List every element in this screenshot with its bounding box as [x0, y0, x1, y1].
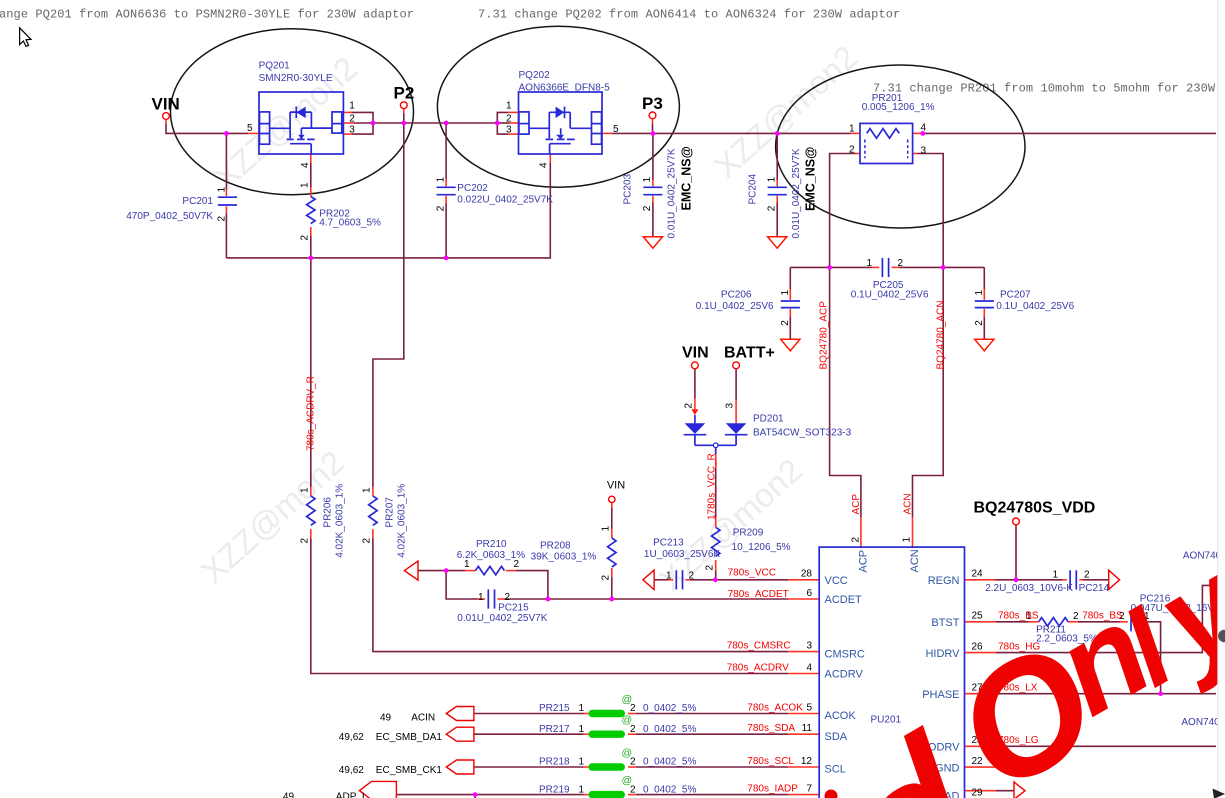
svg-text:780s_ACDET: 780s_ACDET	[728, 589, 789, 600]
note change PQ201	[0, 7, 414, 21]
svg-text:1: 1	[478, 592, 484, 603]
wire VIN small through PR208	[611, 503, 613, 599]
svg-text:ACIN: ACIN	[411, 713, 435, 724]
port P3	[642, 94, 663, 119]
wire SCL row net 780s_SCL	[474, 766, 819, 768]
svg-text:ADP_I: ADP_I	[336, 791, 365, 798]
svg-text:2: 2	[849, 145, 855, 156]
svg-text:PC213: PC213	[653, 538, 684, 549]
svg-text:AON6366E_DFN8-5: AON6366E_DFN8-5	[519, 83, 611, 94]
svg-text:PC215: PC215	[498, 603, 529, 614]
svg-text:3: 3	[506, 124, 512, 135]
resistor PR207	[361, 484, 407, 558]
resistor PR219	[539, 775, 696, 798]
svg-text:2: 2	[898, 258, 904, 269]
svg-text:PQ201: PQ201	[259, 60, 291, 71]
svg-text:ange PQ201 from AON6636 to PSM: ange PQ201 from AON6636 to PSMN2R0-30YLE…	[0, 7, 414, 21]
connector arrow ADP_I	[283, 781, 397, 798]
off-page arrow at PAD	[1014, 782, 1025, 798]
svg-text:EMC_NS@: EMC_NS@	[680, 146, 694, 210]
wire net P2 to PC202 branch	[445, 123, 447, 258]
wire SDA row net 780s_SDA	[474, 733, 819, 735]
watermark xzz@mon2 #1	[207, 49, 364, 196]
svg-text:4.7_0603_5%: 4.7_0603_5%	[319, 217, 381, 228]
wire net P3 bus	[602, 119, 860, 134]
off-page arrow at GND	[1016, 758, 1027, 776]
svg-text:1: 1	[766, 176, 777, 182]
svg-text:BQ24780S_VDD: BQ24780S_VDD	[974, 500, 1096, 517]
wire net VIN to PQ201 pin5	[166, 119, 260, 133]
svg-text:PR210: PR210	[476, 539, 507, 550]
svg-text:ACDRV: ACDRV	[825, 669, 864, 681]
svg-text:2: 2	[600, 575, 611, 581]
svg-text:1: 1	[902, 537, 913, 543]
wire net 780s_ACDET row	[446, 571, 819, 599]
svg-text:P3: P3	[642, 94, 663, 113]
svg-text:0.1U_0402_25V6: 0.1U_0402_25V6	[696, 301, 774, 312]
wire GND pin row	[965, 766, 1017, 768]
capacitor PC201	[126, 186, 237, 221]
svg-text:780s_CMSRC: 780s_CMSRC	[727, 641, 791, 652]
svg-text:29: 29	[972, 787, 984, 798]
svg-text:SDA: SDA	[825, 731, 848, 743]
svg-text:2: 2	[349, 113, 355, 124]
wire PHASE row net 780s_LX	[965, 693, 1217, 695]
svg-text:VIN: VIN	[152, 95, 180, 114]
svg-text:ACOK: ACOK	[825, 710, 857, 722]
svg-text:BTST: BTST	[931, 617, 959, 629]
svg-text:1: 1	[974, 290, 985, 296]
svg-text:2: 2	[684, 403, 695, 409]
connector arrow EC_SMB_CK1	[339, 760, 474, 776]
label AON7408 bottom	[1181, 717, 1225, 728]
svg-text:PR207: PR207	[385, 497, 396, 528]
svg-text:PC201: PC201	[182, 196, 213, 207]
wire PQ201 pin4 to PR202	[310, 155, 312, 258]
svg-text:7.31 change PR201 from 10mohm: 7.31 change PR201 from 10mohm to 5mohm f…	[873, 81, 1216, 95]
svg-text:1: 1	[349, 101, 355, 112]
svg-text:470P_0402_50V7K: 470P_0402_50V7K	[126, 211, 213, 222]
wire PR201 pin4 to right edge	[913, 132, 1216, 134]
svg-text:5: 5	[806, 702, 812, 713]
svg-text:ACN: ACN	[909, 549, 921, 572]
svg-text:ACP: ACP	[851, 494, 862, 515]
connector arrow ACIN	[380, 707, 474, 724]
wire PC206 branch to ground	[789, 267, 791, 339]
svg-text:2: 2	[1084, 570, 1090, 581]
label net 780s_ACDRV_R	[306, 376, 317, 451]
svg-text:CMSRC: CMSRC	[825, 648, 865, 660]
svg-text:PR218: PR218	[539, 757, 570, 768]
svg-text:1: 1	[464, 559, 470, 570]
svg-text:12: 12	[801, 756, 813, 767]
resistor PR201 (sense)	[849, 93, 935, 163]
svg-text:2: 2	[689, 570, 695, 581]
svg-text:49: 49	[380, 713, 392, 724]
svg-text:25: 25	[972, 611, 984, 622]
wire net BQ24780S_VDD	[1015, 525, 1017, 580]
note change PQ202	[478, 7, 900, 21]
mouse cursor	[20, 28, 31, 47]
svg-text:2: 2	[642, 205, 653, 211]
watermark Internal Only (red)	[838, 527, 1225, 798]
resistor PR206	[299, 484, 345, 558]
svg-text:1: 1	[866, 258, 872, 269]
svg-text:4.02K_0603_1%: 4.02K_0603_1%	[397, 484, 408, 558]
svg-text:ACDET: ACDET	[825, 594, 863, 606]
svg-text:EMC_NS@: EMC_NS@	[804, 147, 818, 211]
svg-text:1: 1	[217, 186, 228, 192]
svg-text:PR217: PR217	[539, 724, 570, 735]
svg-text:1: 1	[579, 703, 585, 714]
svg-text:PC203: PC203	[623, 173, 634, 204]
wire net BQ24780_ACN	[913, 154, 944, 549]
wire net 780s_VCC_R through PR209	[715, 454, 717, 580]
svg-text:1: 1	[666, 570, 672, 581]
svg-text:1: 1	[579, 784, 585, 795]
svg-text:2: 2	[217, 216, 228, 222]
svg-text:2: 2	[851, 537, 862, 543]
svg-text:PC206: PC206	[721, 289, 752, 300]
svg-text:2: 2	[436, 205, 447, 211]
svg-text:EC_SMB_DA1: EC_SMB_DA1	[376, 732, 443, 743]
diode PD201 dual	[684, 369, 852, 454]
svg-text:BATT+: BATT+	[724, 345, 775, 362]
label EMC_NS@ at PC204	[804, 147, 818, 211]
ellipse around PR201	[776, 65, 1025, 228]
capacitor PC214	[985, 570, 1109, 594]
svg-text:PC204: PC204	[748, 173, 759, 204]
svg-text:49,62: 49,62	[339, 765, 364, 776]
ellipse around PQ202	[437, 26, 679, 187]
svg-text:PC207: PC207	[1000, 289, 1031, 300]
svg-text:780s_IADP: 780s_IADP	[747, 784, 798, 795]
svg-text:1: 1	[579, 724, 585, 735]
port BATT+	[724, 345, 775, 369]
svg-text:VCC: VCC	[825, 575, 848, 587]
svg-text:1: 1	[642, 176, 653, 182]
svg-text:PR215: PR215	[539, 703, 570, 714]
svg-text:4: 4	[806, 662, 812, 673]
wire ACOK row net 780s_ACOK	[474, 713, 819, 715]
svg-text:0.1U_0402_25V6: 0.1U_0402_25V6	[996, 301, 1074, 312]
op-amp chip PU201 BQ24780S	[819, 547, 964, 798]
svg-text:4: 4	[921, 123, 927, 134]
capacitor PC206	[696, 289, 800, 325]
note change PR201	[873, 81, 1216, 95]
svg-text:2: 2	[704, 565, 715, 571]
labels red pin nets ACP ACN	[851, 494, 862, 515]
svg-text:1: 1	[361, 487, 372, 493]
svg-text:2: 2	[299, 538, 310, 544]
resistor PR209	[704, 527, 790, 570]
svg-text:4.02K_0603_1%: 4.02K_0603_1%	[335, 484, 346, 558]
label net 1 780s_VCC_R	[707, 453, 718, 520]
svg-text:0_0402_5%: 0_0402_5%	[643, 724, 696, 735]
svg-text:1780s_VCC_R: 1780s_VCC_R	[707, 453, 718, 520]
svg-text:4: 4	[539, 162, 550, 168]
port VIN small at PR208	[607, 479, 625, 502]
svg-text:2: 2	[780, 320, 791, 326]
svg-text:PR208: PR208	[540, 541, 571, 552]
label EMC_NS@ at PC203	[680, 146, 694, 210]
svg-text:PQ202: PQ202	[519, 70, 551, 81]
svg-text:0.01U_0402_25V7K: 0.01U_0402_25V7K	[667, 148, 678, 238]
port P2	[394, 84, 415, 109]
svg-text:VIN: VIN	[607, 479, 625, 491]
net labels left of chip	[727, 568, 804, 795]
svg-text:0_0402_5%: 0_0402_5%	[643, 757, 696, 768]
watermark xzz@mon2 #3	[194, 443, 351, 590]
svg-text:PC202: PC202	[457, 183, 488, 194]
net labels right of chip	[998, 611, 1123, 746]
wire BTST row net 780s_BS	[965, 622, 1161, 694]
wire net 780s_VCC row	[654, 579, 819, 581]
svg-text:0.1U_0402_25V6: 0.1U_0402_25V6	[851, 289, 929, 300]
svg-text:5: 5	[247, 123, 253, 134]
scrollbar strip	[1213, 0, 1225, 798]
capacitor PC205	[851, 258, 929, 301]
capacitor PC215	[457, 589, 547, 624]
capacitor PC216	[1119, 594, 1225, 632]
ground at PC203	[643, 237, 662, 249]
red ERC dot at pin7	[825, 790, 838, 798]
svg-text:3: 3	[806, 640, 812, 651]
svg-text:1: 1	[849, 123, 855, 134]
wire PC205 row	[790, 266, 984, 268]
label net BQ24780_ACP	[819, 301, 830, 370]
svg-text:780s_ACDRV: 780s_ACDRV	[727, 662, 789, 673]
svg-text:PR219: PR219	[539, 784, 570, 795]
wire HIDRV row net 780s_HG	[965, 585, 1217, 652]
svg-text:7: 7	[806, 783, 812, 794]
svg-text:@: @	[622, 747, 633, 759]
svg-text:39K_0603_1%: 39K_0603_1%	[531, 551, 597, 562]
svg-text:ACN: ACN	[903, 493, 914, 514]
wire IADP row net 780s_IADP	[396, 795, 819, 798]
resistor PR217	[539, 714, 696, 738]
wire PC201 branch	[225, 133, 227, 258]
wire net P2 bus	[373, 109, 497, 123]
svg-text:@: @	[622, 775, 633, 787]
capacitor PC203	[623, 148, 678, 238]
ground at PC207	[975, 339, 994, 351]
svg-text:PD201: PD201	[753, 414, 784, 425]
wire PC204 branch to ground	[776, 133, 778, 236]
svg-text:0.005_1206_1%: 0.005_1206_1%	[862, 102, 935, 113]
svg-text:6: 6	[806, 588, 812, 599]
svg-text:@: @	[622, 694, 633, 706]
off-page arrow at REGN	[1109, 570, 1120, 589]
capacitor PC207	[974, 289, 1075, 325]
port BQ24780S_VDD	[974, 500, 1096, 525]
svg-text:2: 2	[766, 205, 777, 211]
svg-text:BQ24780_ACP: BQ24780_ACP	[819, 301, 830, 370]
svg-text:0.022U_0402_25V7K: 0.022U_0402_25V7K	[457, 195, 553, 206]
svg-text:780s_VCC: 780s_VCC	[728, 568, 776, 579]
resistor PR202	[299, 182, 381, 241]
svg-text:1: 1	[1052, 570, 1058, 581]
svg-text:49: 49	[283, 791, 295, 798]
resistor PR211	[1026, 611, 1098, 645]
capacitor PC204	[748, 148, 802, 238]
svg-text:ACP: ACP	[858, 550, 870, 573]
capacitor PC213	[644, 538, 721, 590]
svg-text:2: 2	[299, 235, 310, 241]
svg-text:0_0402_5%: 0_0402_5%	[643, 784, 696, 795]
wire REGN row	[965, 579, 1109, 581]
connector arrow EC_SMB_DA1	[339, 727, 474, 743]
svg-text:@: @	[622, 714, 633, 726]
resistor PR208	[531, 526, 616, 581]
svg-text:0_0402_5%: 0_0402_5%	[643, 703, 696, 714]
label net BQ24780_ACN	[936, 301, 947, 370]
svg-text:0.01U_0402_25V7K: 0.01U_0402_25V7K	[457, 613, 547, 624]
svg-text:780s_ACOK: 780s_ACOK	[747, 702, 803, 713]
svg-text:2: 2	[506, 113, 512, 124]
svg-text:780s_SDA: 780s_SDA	[747, 723, 795, 734]
ground at PC206	[781, 339, 800, 351]
svg-text:VIN: VIN	[682, 345, 709, 362]
svg-text:1: 1	[436, 176, 447, 182]
ground at PC204	[768, 237, 787, 249]
ellipse around PQ201	[171, 29, 414, 195]
watermark xzz@mon2 #4	[652, 451, 809, 598]
port VIN	[152, 95, 180, 120]
svg-text:2: 2	[361, 538, 372, 544]
wire net 780s_ACDRV_R through PR206	[311, 258, 819, 674]
wire LODRV row net 780s_LG	[965, 745, 1217, 747]
svg-text:10_1206_5%: 10_1206_5%	[732, 542, 791, 553]
port VIN at PD201	[682, 345, 709, 369]
transistor PQ201	[247, 60, 355, 168]
svg-text:2: 2	[974, 320, 985, 326]
svg-text:3: 3	[725, 403, 736, 409]
svg-text:780s_SCL: 780s_SCL	[747, 756, 794, 767]
svg-text:1: 1	[506, 101, 512, 112]
svg-text:1: 1	[780, 290, 791, 296]
svg-text:5: 5	[613, 124, 619, 135]
svg-text:780s_ACDRV_R: 780s_ACDRV_R	[306, 376, 317, 451]
capacitor PC202	[436, 176, 554, 211]
svg-text:BAT54CW_SOT323-3: BAT54CW_SOT323-3	[753, 428, 852, 439]
svg-text:4: 4	[300, 162, 311, 168]
svg-text:2.2U_0603_10V6-K: 2.2U_0603_10V6-K	[985, 583, 1073, 594]
svg-text:REGN: REGN	[928, 575, 960, 587]
watermark xzz@mon2 #2	[707, 38, 864, 185]
wire PAD pin row	[965, 790, 1015, 792]
svg-text:11: 11	[802, 723, 813, 734]
svg-text:PR209: PR209	[733, 528, 764, 539]
wire net P2 down through PR207 to CMSRC	[373, 123, 819, 652]
svg-text:1: 1	[579, 757, 585, 768]
svg-text:PR206: PR206	[323, 497, 334, 528]
svg-text:2: 2	[514, 559, 520, 570]
svg-text:24: 24	[972, 569, 984, 580]
wire bottom rail net P5	[226, 155, 550, 258]
svg-text:0.01U_0402_25V7K: 0.01U_0402_25V7K	[791, 148, 802, 238]
svg-text:1U_0603_25V6K: 1U_0603_25V6K	[644, 549, 721, 560]
wire PQ202 left pins bracket	[497, 112, 519, 134]
wire PR210 row	[418, 571, 548, 599]
svg-text:1: 1	[600, 526, 611, 532]
svg-text:3: 3	[921, 145, 927, 156]
svg-text:28: 28	[801, 569, 813, 580]
resistor PR215	[539, 694, 696, 718]
off-page arrow at PR210	[404, 561, 418, 580]
wire net BQ24780_ACP	[830, 154, 861, 549]
svg-text:49,62: 49,62	[339, 732, 364, 743]
label AON7408 top	[1183, 550, 1225, 561]
svg-text:3: 3	[349, 124, 355, 135]
svg-text:2: 2	[505, 592, 511, 603]
svg-text:SMN2R0-30YLE: SMN2R0-30YLE	[259, 73, 333, 84]
resistor PR218	[539, 747, 696, 771]
resistor PR210	[457, 539, 526, 575]
svg-text:1: 1	[299, 487, 310, 493]
svg-text:EC_SMB_CK1: EC_SMB_CK1	[376, 765, 443, 776]
transistor PQ202	[506, 70, 619, 168]
off-page arrow at PC213	[643, 570, 654, 590]
svg-text:7.31 change PQ202 from AON6414: 7.31 change PQ202 from AON6414 to AON632…	[478, 7, 900, 21]
svg-text:1: 1	[299, 182, 310, 188]
svg-text:P2: P2	[394, 84, 415, 103]
wire PC203 branch to ground	[652, 133, 654, 236]
wire PC207 branch to ground	[983, 267, 985, 339]
wire PQ201 right pins bracket	[343, 112, 373, 134]
svg-text:BQ24780_ACN: BQ24780_ACN	[936, 301, 947, 370]
chip pin numbers	[801, 537, 983, 798]
